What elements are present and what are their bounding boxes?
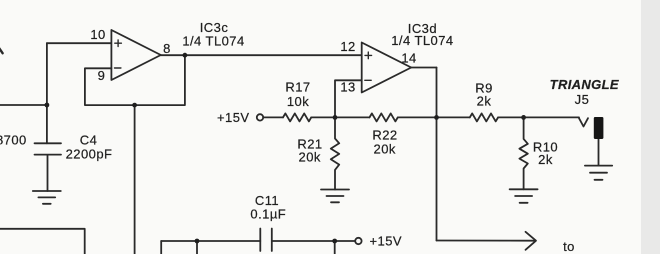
wire node to R22 [335,116,370,118]
page edge gray strip [641,0,660,254]
node junction IC3c output [183,53,188,58]
ground below R10 [510,189,538,203]
jack J5 sleeve wire to ground [598,139,600,166]
svg-text:2k: 2k [477,94,492,109]
node R9 R10 jack [521,115,526,120]
op-amp IC3d plus input mark [365,52,372,59]
capacitor C4 [35,143,62,191]
op-amp U IC3d triangle [362,43,412,93]
arrowhead [526,232,537,250]
svg-text:12: 12 [340,39,355,54]
cut-off arrow mark at left edge [0,47,3,54]
box outline bottom-left [0,229,85,254]
wire left vertical riser [46,43,48,143]
svg-text:2200pF: 2200pF [66,147,113,162]
svg-text:8700: 8700 [0,133,27,148]
ground below R21 [321,190,349,203]
svg-text:+15V: +15V [217,110,250,125]
node junction left input [45,103,50,108]
wire stub down at junction 2 [334,241,336,254]
svg-text:13: 13 [340,80,355,95]
svg-text:2k: 2k [538,152,553,167]
svg-text:to: to [563,239,575,254]
node R17 R21 R22 pin13 [333,115,338,120]
jack J5 sleeve bar [594,117,604,139]
terminal circle +15V bottom [355,238,361,244]
terminal circle +15V left [257,114,263,120]
svg-text:1/4 TL074: 1/4 TL074 [182,34,244,49]
wire R22 to rail [398,116,437,118]
capacitor C11 [260,229,272,252]
resistor R21 vertical [331,117,339,189]
svg-text:20k: 20k [299,150,321,165]
wire IC3c feedback loop pin 9 [85,55,185,105]
svg-text:10k: 10k [287,94,309,109]
svg-text:14: 14 [401,51,416,66]
svg-text:R22: R22 [372,128,397,143]
op-amp IC3c plus input mark [115,40,122,47]
svg-text:+15V: +15V [370,233,403,248]
resistor R17 [283,113,311,121]
wire node to jack [524,116,579,118]
jack J5 contact V [579,118,588,126]
svg-text:10: 10 [90,27,105,42]
wire IC3d feedback pin 13 down to node [335,80,362,117]
wire vertical rail from output down [436,68,438,241]
wire bottom to arrow [437,240,535,242]
svg-text:1/4 TL074: 1/4 TL074 [391,33,453,48]
wire stub down at left corner [160,241,162,254]
op-amp U IC3c triangle [111,30,160,80]
resistor R22 [370,113,398,121]
wire IC3c output to IC3d input [161,54,362,56]
op-amp IC3c minus input mark [115,67,121,69]
node junction feedback bottom [132,103,137,108]
svg-text:TRIANGLE: TRIANGLE [550,77,619,92]
ground below C4 [33,191,61,204]
svg-text:J5: J5 [575,92,590,107]
wire rail to R9 [437,116,470,118]
wire to pin 10 [47,42,112,44]
svg-text:8: 8 [163,41,171,56]
op-amp IC3d minus input mark [365,79,371,81]
node C11 rail right [332,239,337,244]
svg-text:20k: 20k [374,142,396,157]
wire R9 to node [498,116,523,118]
svg-text:R17: R17 [285,80,310,95]
svg-text:9: 9 [98,68,106,83]
ground below jack [585,166,612,180]
node C11 rail left [195,239,200,244]
node rail at vertical [434,115,439,120]
wire stub down at junction [196,241,198,254]
svg-text:0.1µF: 0.1µF [250,207,286,222]
resistor R10 vertical [519,117,527,189]
svg-text:C4: C4 [80,133,98,148]
wire IC3d output pin 14 [411,67,436,69]
wire C11 bottom rail left [161,240,260,242]
wire C11 to terminal [272,240,355,242]
wire terminal to R17 [263,116,283,118]
wire left input horizontal [0,104,47,106]
wire long vertical from feedback node down [134,105,136,254]
resistor R9 [470,113,498,121]
wire R17 to node [311,116,335,118]
